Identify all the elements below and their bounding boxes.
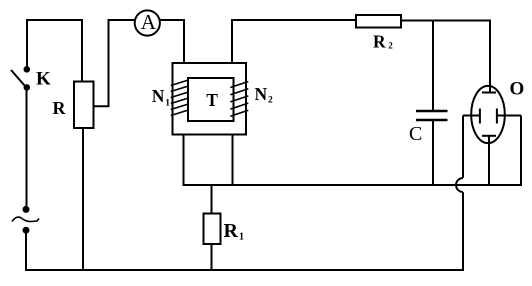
- svg-text:R: R: [373, 32, 386, 52]
- svg-text:O: O: [510, 79, 525, 100]
- svg-text:1: 1: [165, 99, 170, 109]
- svg-text:N: N: [255, 84, 268, 104]
- svg-text:2: 2: [268, 96, 273, 106]
- svg-text:T: T: [206, 90, 218, 110]
- svg-text:N: N: [152, 86, 165, 106]
- svg-text:K: K: [36, 69, 51, 90]
- svg-text:C: C: [409, 123, 422, 145]
- svg-text:2: 2: [388, 41, 393, 51]
- svg-text:R: R: [53, 98, 67, 118]
- svg-text:R: R: [224, 220, 239, 242]
- svg-text:1: 1: [239, 232, 244, 243]
- svg-text:A: A: [141, 10, 157, 34]
